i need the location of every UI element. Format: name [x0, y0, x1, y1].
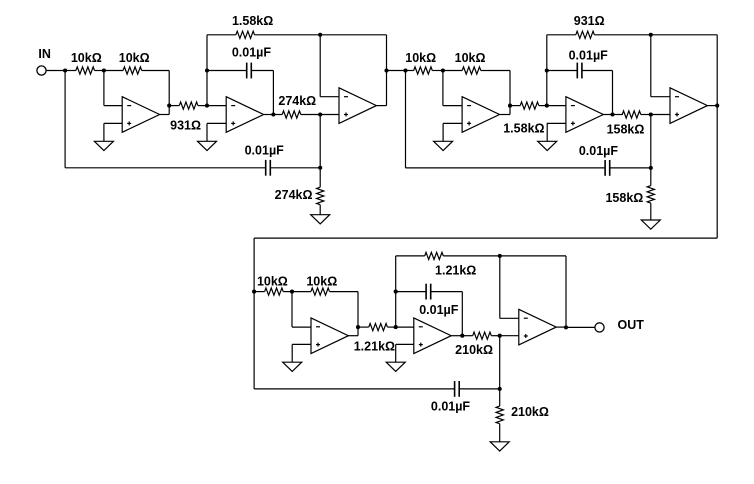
node A2 junction stage 2 input: [403, 68, 407, 72]
svg-text:IN: IN: [38, 47, 51, 61]
wire node H1 to U3 + input: [320, 114, 339, 116]
wire C5 down to U8 output node: [461, 292, 463, 336]
wire node B3 to R14: [292, 291, 311, 293]
wire node F1 down to U3 inverting input: [319, 35, 321, 97]
wire U5 output to node G2: [603, 114, 612, 116]
wire bottom feedback run to capacitor C4: [406, 167, 606, 169]
node C1 junction: [167, 104, 171, 108]
wire U1 non-inverting input: [104, 122, 122, 124]
resistor R17 210k: [473, 332, 492, 339]
wire top feedback to R4: [207, 34, 236, 36]
wire top feedback to R10: [547, 34, 576, 36]
wire U4 output to node C2: [500, 114, 511, 116]
wire U3 output up to top feedback: [386, 35, 388, 106]
wire node B1 to R2: [104, 70, 123, 72]
wire U7 + input down to ground: [291, 344, 293, 362]
resistor R2 10k: [123, 67, 142, 74]
wire node D3 up to feedback loop: [395, 256, 397, 327]
capacitor C5 0.01uF integrator: [426, 284, 431, 300]
svg-text:158kΩ: 158kΩ: [605, 191, 643, 205]
wire R13 to node B3: [283, 291, 292, 293]
node H2 junction U6 non-inverting input: [649, 112, 653, 116]
wire R18 to ground: [499, 424, 501, 442]
resistor R4 1.58k feedback: [236, 31, 255, 38]
wire bottom feedback run to capacitor C6: [254, 388, 455, 390]
ground below R6: [311, 215, 330, 224]
svg-text:0.01µF: 0.01µF: [431, 399, 471, 413]
wire top feedback to U3 output branch: [320, 34, 386, 36]
resistor R11 158k: [622, 111, 641, 118]
wire U4 + input down to ground: [442, 123, 444, 141]
node E1 junction capacitor branch: [205, 68, 209, 72]
wire node A3 down to bottom feedback run: [253, 292, 255, 389]
wire node B3 down to U7 inverting input: [291, 292, 293, 328]
input terminal IN: [37, 66, 46, 75]
wire stage 3 input down: [253, 238, 255, 292]
svg-text:10kΩ: 10kΩ: [455, 51, 486, 65]
resistor R1 10k: [76, 67, 95, 74]
ground at U4: [434, 141, 453, 150]
svg-text:0.01µF: 0.01µF: [245, 144, 285, 158]
wire C3 to corner: [582, 70, 613, 72]
node D3 junction U8 inverting input: [394, 325, 398, 329]
wire node A3 to R13: [254, 291, 265, 293]
wire U9 output up to top feedback: [565, 256, 567, 328]
wire R16 to node F3: [443, 255, 500, 257]
wire node D3 to U8 inverting input: [396, 326, 414, 328]
wire node H3 down to bottom node: [499, 336, 501, 389]
wire U1 output to node C1: [160, 114, 170, 116]
wire feedback down to op-amp U4 output: [509, 71, 511, 115]
node D1 junction U2 inverting input: [205, 104, 209, 108]
svg-text:1.21kΩ: 1.21kΩ: [354, 340, 395, 354]
svg-text:0.01µF: 0.01µF: [579, 144, 619, 158]
wire U2 + input down to ground: [206, 123, 208, 141]
node A junction: [63, 68, 67, 72]
wire node A to R1: [65, 70, 76, 72]
wire C1 down to U2 output node: [272, 71, 274, 115]
node D2 junction U5 inverting input: [545, 104, 549, 108]
svg-text:931Ω: 931Ω: [170, 119, 201, 133]
wire node G2 to R11: [613, 114, 623, 116]
wire node D2 to U5 inverting input: [547, 105, 566, 107]
node G2 junction U5 output: [610, 112, 614, 116]
node C3 junction: [356, 325, 360, 329]
svg-text:0.01µF: 0.01µF: [232, 45, 272, 59]
wire U6 output: [707, 105, 717, 107]
capacitor C6 0.01uF input feedback: [455, 381, 460, 397]
svg-text:OUT: OUT: [618, 318, 645, 332]
op-amp U7: [311, 318, 348, 354]
wire node E3 to capacitor C5: [396, 291, 427, 293]
wire U9 output: [556, 326, 566, 328]
node H1 junction U3 non-inverting input: [318, 112, 322, 116]
ground at U1: [94, 141, 113, 150]
wire top feedback to R16: [396, 255, 425, 257]
wire R5 to node H1: [301, 114, 320, 116]
wire node B2 down to U4 inverting input: [442, 71, 444, 106]
svg-text:158kΩ: 158kΩ: [607, 122, 645, 136]
wire U3 output: [376, 105, 386, 107]
wire node A2 to R7: [406, 70, 414, 72]
wire U7 non-inverting input: [292, 343, 311, 345]
wire to U9 inverting input: [500, 317, 519, 319]
wire C1 to corner: [251, 70, 273, 72]
resistor R6 274k to ground: [317, 187, 324, 205]
wire R4 to node F1: [255, 34, 321, 36]
resistor R3 931: [179, 102, 198, 109]
wire node K1 down to R6: [319, 168, 321, 187]
ground below R18: [490, 442, 509, 451]
wire node K2 down to R12: [650, 168, 652, 186]
wire R1 to node B1: [95, 70, 104, 72]
wire node E2 to capacitor C3: [547, 70, 578, 72]
wire node H2 down to bottom node: [650, 115, 652, 168]
op-amp U1: [122, 97, 159, 133]
resistor R12 158k to ground: [647, 186, 654, 204]
wire to U6 inverting input: [651, 96, 670, 98]
ground at U2: [198, 141, 217, 150]
wire node C3 to R15: [358, 326, 369, 328]
op-amp U5: [566, 97, 603, 133]
capacitor C4 0.01uF input feedback: [605, 160, 610, 176]
node G3 junction U8 output: [460, 334, 464, 338]
wire R15 to node D3: [387, 326, 395, 328]
wire R9 to node D2: [539, 105, 547, 107]
op-amp U3: [339, 88, 376, 124]
wire U4 non-inverting input: [443, 122, 462, 124]
node K2 junction: [649, 166, 653, 170]
wire feedback down to op-amp U7 output: [357, 292, 359, 336]
wire bottom feedback run to capacitor C2: [65, 167, 266, 169]
wire R10 to node F2: [594, 34, 650, 36]
svg-text:931Ω: 931Ω: [574, 14, 605, 28]
node B3 junction: [290, 290, 294, 294]
wire node K3 down to R18: [499, 389, 501, 406]
svg-text:10kΩ: 10kΩ: [257, 275, 288, 289]
wire stage 1 output to stage 2 input: [387, 70, 406, 72]
node E2 junction capacitor branch: [545, 68, 549, 72]
wire stage 2 output across: [254, 237, 717, 239]
wire node H1 down to bottom node: [319, 115, 321, 168]
wire stage 2 output down: [716, 106, 718, 239]
wire R6 to ground: [319, 205, 321, 215]
capacitor C3 0.01uF integrator: [577, 63, 582, 79]
ground at U8: [386, 362, 405, 371]
wire IN terminal to node A: [46, 70, 65, 72]
svg-text:10kΩ: 10kΩ: [405, 51, 436, 65]
wire node E1 to capacitor C1: [207, 70, 247, 72]
wire C6 to node K3: [459, 388, 500, 390]
wire C4 to node K2: [610, 167, 651, 169]
wire R11 to node H2: [641, 114, 651, 116]
svg-text:0.01µF: 0.01µF: [569, 49, 609, 63]
node C2 junction: [508, 104, 512, 108]
wire C5 to corner: [431, 291, 463, 293]
ground below R12: [641, 220, 660, 229]
resistor R9 1.58k: [520, 102, 539, 109]
node J2 junction stage 2 output: [715, 104, 719, 108]
node F1 junction top feedback: [318, 33, 322, 37]
node E3 junction capacitor branch: [394, 290, 398, 294]
wire node G1 to R5: [273, 114, 282, 116]
wire feedback down to op-amp U1 output: [168, 71, 170, 115]
wire node F3 down to U9 inverting input: [499, 256, 501, 318]
node K1 junction: [318, 166, 322, 170]
wire node D1 up to feedback loop: [206, 35, 208, 106]
wire node H3 to U9 + input: [500, 335, 519, 337]
svg-text:1.58kΩ: 1.58kΩ: [503, 122, 544, 136]
ground at U7: [283, 362, 302, 371]
wire node A2 down to bottom feedback run: [405, 71, 407, 168]
node F2 junction top feedback: [649, 33, 653, 37]
wire U5 + input down to ground: [546, 123, 548, 141]
resistor R7 10k: [414, 67, 433, 74]
ground at U5: [538, 141, 557, 150]
wire node C2 to R9: [510, 105, 520, 107]
wire R3 to node D1: [198, 105, 207, 107]
resistor R8 10k: [462, 67, 481, 74]
wire C2 to node K1: [270, 167, 320, 169]
node J3 junction output: [564, 325, 568, 329]
svg-text:274kΩ: 274kΩ: [278, 94, 316, 108]
svg-text:274kΩ: 274kΩ: [275, 188, 313, 202]
wire U2 output to node G1: [264, 114, 274, 116]
wire node F2 down to U6 inverting input: [650, 35, 652, 97]
resistor R18 210k to ground: [496, 406, 503, 424]
wire R2 to feedback corner: [142, 70, 170, 72]
svg-text:210kΩ: 210kΩ: [455, 343, 493, 357]
capacitor C2 0.01uF input feedback: [266, 160, 271, 176]
wire R8 to feedback corner: [481, 70, 510, 72]
node G1 junction U2 output: [271, 112, 275, 116]
node J1 junction stage output: [384, 68, 388, 72]
resistor R14 10k: [311, 288, 330, 295]
output terminal OUT: [595, 323, 604, 332]
wire R12 to ground: [650, 203, 652, 220]
wire to U3 inverting input: [320, 96, 339, 98]
wire R7 to node B2: [432, 70, 443, 72]
wire node D2 up to feedback loop: [546, 35, 548, 106]
capacitor C1 0.01uF integrator: [247, 63, 252, 79]
svg-text:10kΩ: 10kΩ: [306, 275, 337, 289]
resistor R10 931 feedback: [576, 31, 595, 38]
wire top feedback to U9 output branch: [500, 255, 566, 257]
wire node H2 to U6 + input: [651, 114, 670, 116]
svg-text:1.58kΩ: 1.58kΩ: [232, 14, 273, 28]
resistor R5 274k: [282, 111, 301, 118]
wire node A down to bottom feedback run: [64, 71, 66, 168]
wire R14 to feedback corner: [330, 291, 359, 293]
op-amp U9: [519, 309, 556, 345]
node A3 junction stage 3 input: [252, 290, 256, 294]
wire to U7 inverting input: [292, 326, 311, 328]
wire U2 non-inverting input: [207, 122, 226, 124]
node B1 junction: [102, 68, 106, 72]
node K3 junction: [498, 387, 502, 391]
svg-text:210kΩ: 210kΩ: [511, 405, 549, 419]
wire U8 non-inverting input: [396, 343, 414, 345]
op-amp U6: [670, 88, 707, 124]
wire to OUT terminal: [566, 326, 595, 328]
wire U8 + input down to ground: [395, 344, 397, 362]
resistor R16 1.21k feedback: [425, 252, 444, 259]
wire C3 down to U5 output node: [612, 71, 614, 115]
resistor R13 10k: [265, 288, 284, 295]
op-amp U2: [226, 97, 263, 133]
svg-text:1.21kΩ: 1.21kΩ: [435, 264, 476, 278]
wire R17 to node H3: [491, 335, 499, 337]
wire node B1 down to U1 inverting input: [103, 71, 105, 106]
wire node B2 to R8: [443, 70, 462, 72]
wire U1 + input down to ground: [103, 123, 105, 141]
node H3 junction U9 non-inverting input: [498, 334, 502, 338]
wire to U1 inverting input: [104, 105, 122, 107]
wire U8 output to node G3: [451, 335, 462, 337]
wire node C1 to R3: [169, 105, 179, 107]
svg-text:0.01µF: 0.01µF: [419, 303, 459, 317]
wire to U4 inverting input: [443, 105, 462, 107]
wire top feedback to U6 output branch: [651, 34, 717, 36]
wire U6 output up to top feedback: [716, 35, 718, 106]
wire U7 output to node C3: [348, 335, 358, 337]
resistor R15 1.21k: [369, 324, 388, 331]
wire node D1 to U2 inverting input: [207, 105, 226, 107]
wire node G3 to R17: [462, 335, 472, 337]
op-amp U8: [414, 318, 451, 354]
op-amp U4: [462, 97, 499, 133]
svg-text:10kΩ: 10kΩ: [119, 51, 150, 65]
wire U5 non-inverting input: [547, 122, 566, 124]
node B2 junction: [441, 68, 445, 72]
node F3 junction top feedback: [498, 254, 502, 258]
svg-text:10kΩ: 10kΩ: [71, 51, 102, 65]
